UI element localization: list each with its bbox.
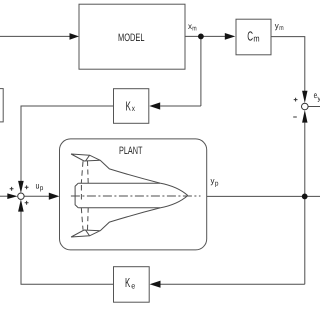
arrowhead into C_m	[225, 33, 236, 40]
block PLANT (rounded)	[60, 139, 207, 250]
wire: vertical feedback line right	[304, 123, 306, 285]
plus sign S1 left	[10, 187, 14, 191]
svg-text:e: e	[131, 282, 135, 291]
wire: bottom feedback into K_e	[161, 283, 305, 285]
svg-text:m: m	[279, 25, 284, 32]
wire: horizontal into K_x	[160, 105, 201, 107]
summing junction S2	[302, 103, 309, 110]
aircraft hidden dashed lines	[81, 161, 83, 229]
summing junction S1	[18, 193, 24, 199]
aircraft lower wing edge and nose	[100, 196, 188, 231]
block K_e	[114, 267, 150, 303]
aircraft body flap left end	[75, 183, 78, 207]
arrowhead into S2 top	[302, 91, 307, 103]
wire: PLANT output y_p to right edge	[207, 195, 320, 197]
plus sign S1 bottom-right	[25, 201, 29, 205]
wire: K_e output to left and up to S1	[21, 210, 114, 285]
arrowhead into K_e	[150, 281, 161, 288]
svg-text:p: p	[215, 180, 219, 187]
wire: x_m vertical drop	[200, 36, 202, 106]
wire: S1 output to PLANT	[24, 195, 50, 197]
svg-text:m: m	[253, 34, 259, 44]
svg-text:K: K	[125, 275, 130, 290]
svg-text:MODEL: MODEL	[118, 32, 145, 44]
arrowhead into MODEL	[70, 33, 80, 40]
svg-text:x: x	[132, 104, 135, 113]
svg-text:K: K	[126, 99, 131, 114]
block K_x	[114, 89, 149, 124]
aircraft drawing inside PLANT	[71, 154, 201, 237]
wire: left input to sum S1	[0, 195, 7, 197]
wire: C_m output y_m	[271, 37, 305, 91]
wire: input to MODEL	[0, 35, 70, 37]
svg-text:C: C	[247, 29, 253, 44]
minus sign S2	[293, 116, 297, 118]
partial block at left edge	[0, 89, 3, 122]
arrowhead into S1 top	[18, 181, 24, 193]
svg-text:m: m	[192, 26, 197, 33]
wire: MODEL to C_m	[185, 35, 225, 37]
block MODEL	[79, 4, 185, 69]
arrowhead into K_x	[149, 102, 160, 109]
plus sign S2	[294, 98, 298, 102]
arrowhead into S1 left	[7, 193, 17, 199]
arrowhead into S2 bottom	[302, 110, 307, 123]
svg-text:p: p	[40, 185, 44, 192]
aircraft body top edge	[78, 182, 160, 184]
junction dot y_p	[302, 194, 308, 200]
aircraft top winglet	[71, 154, 100, 161]
arrowhead into PLANT	[49, 193, 60, 200]
arrowhead into S1 bottom	[18, 199, 24, 211]
block C_m	[236, 19, 271, 55]
wire: K_x output to left	[21, 106, 114, 183]
junction dot x_m	[198, 34, 204, 40]
aircraft body bottom edge	[78, 207, 160, 209]
aircraft centerline (dash-dot)	[71, 195, 201, 197]
wire: e output right	[308, 106, 320, 108]
aircraft bottom winglet	[71, 230, 100, 237]
svg-text:PLANT: PLANT	[119, 145, 143, 157]
aircraft upper wing edge and nose	[100, 160, 188, 195]
plus sign S1 top-right	[25, 185, 29, 189]
